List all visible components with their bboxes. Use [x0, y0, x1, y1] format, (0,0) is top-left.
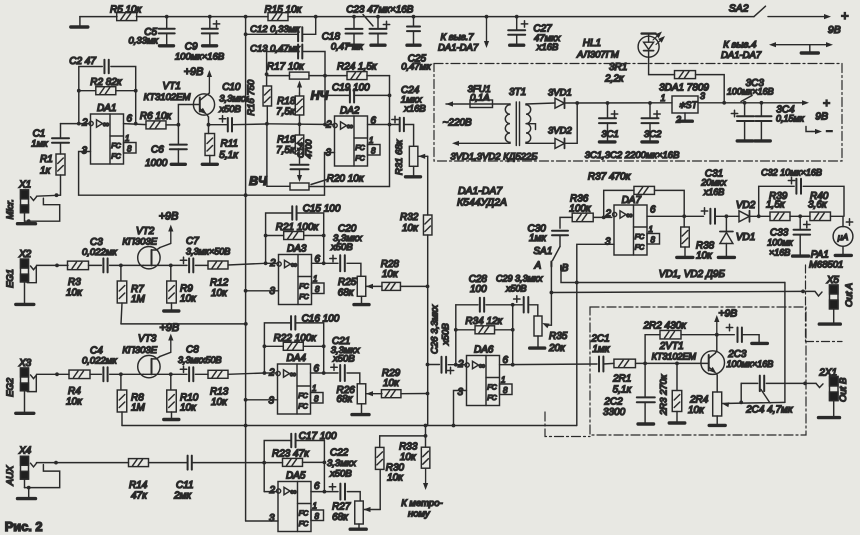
svg-text:FC: FC: [487, 384, 497, 392]
svg-text:3R1: 3R1: [609, 62, 627, 73]
svg-text:C12 0,33мк: C12 0,33мк: [250, 24, 300, 35]
svg-text:FC: FC: [355, 155, 365, 163]
resistor R2: [77, 89, 81, 93]
capacitor 3C3: [744, 103, 746, 116]
svg-text:R14: R14: [129, 480, 148, 491]
capacitor C8: [171, 373, 187, 375]
wire: DA3 pin3 to bias bus: [246, 290, 279, 292]
capacitor C6: [177, 125, 179, 145]
svg-text:8: 8: [314, 395, 319, 404]
svg-text:1: 1: [313, 275, 317, 284]
svg-text:R37 470к: R37 470к: [588, 172, 632, 183]
svg-text:SA2: SA2: [729, 4, 749, 15]
svg-text:μА: μА: [837, 232, 849, 242]
wire: R40 to meter PA1: [831, 216, 844, 226]
svg-text:3,3мкх: 3,3мкх: [327, 458, 357, 469]
callout line C23: [363, 15, 373, 27]
node: DA4 pin6: [322, 371, 326, 375]
wire: VT2 source node: [152, 264, 171, 266]
svg-text:АЛ307ГМ: АЛ307ГМ: [576, 50, 619, 61]
svg-text:10к: 10к: [400, 452, 417, 463]
svg-text:HL1: HL1: [583, 38, 601, 49]
svg-text:R22 100к: R22 100к: [274, 333, 318, 344]
svg-text:2: 2: [605, 209, 612, 220]
svg-text:R5 10к: R5 10к: [110, 5, 143, 16]
svg-text:DA1: DA1: [97, 103, 116, 114]
node: R7 tap: [119, 264, 123, 268]
svg-text:1М: 1М: [131, 403, 146, 414]
svg-text:FC: FC: [111, 142, 121, 150]
wire: HL1 to 3R1: [649, 57, 675, 74]
callout line 2C4: [761, 390, 770, 404]
svg-text:3С2: 3С2: [644, 129, 662, 140]
wire: VT2 drain to +9V: [170, 232, 172, 244]
feedback loop DA4: capacitor C16: [264, 323, 291, 373]
svg-text:10к: 10к: [387, 473, 404, 484]
svg-text:100: 100: [470, 284, 487, 295]
resistor R11: [208, 125, 210, 134]
svg-text:AUX: AUX: [5, 465, 16, 486]
node: R29 join: [426, 392, 430, 396]
svg-text:∞: ∞: [626, 210, 632, 220]
resistor R10: [170, 374, 172, 389]
svg-text:FC: FC: [487, 394, 497, 402]
svg-text:B: B: [562, 263, 569, 274]
svg-text:3: 3: [269, 513, 275, 524]
resistor R5: [117, 13, 137, 21]
svg-text:К выв.7: К выв.7: [441, 32, 475, 43]
wire: DA7 pin3 to B-line and ref rail: [577, 244, 614, 425]
svg-text:8: 8: [503, 386, 508, 395]
wire: C31 to VD2: [715, 215, 739, 217]
svg-text:1: 1: [369, 136, 373, 145]
wire: DA7 pin6 output: [647, 215, 704, 217]
wiper R26 from R29: [366, 391, 373, 396]
wire: 3VD2 up to raw rail: [565, 103, 578, 143]
svg-text:FC: FC: [299, 510, 309, 518]
node: C26 tap: [426, 363, 430, 367]
node: R18/R19: [298, 122, 302, 126]
node: C25 tap: [412, 15, 416, 19]
wire: top rail R5 to R15: [136, 16, 268, 18]
diode 3VD1: [555, 98, 565, 108]
wiper R25 from R28: [366, 284, 373, 289]
svg-text:100к: 100к: [569, 204, 592, 215]
wire: DA1 pin6 to R6: [124, 124, 147, 125]
svg-text:FC: FC: [635, 233, 645, 241]
capacitor C7: [171, 264, 187, 266]
svg-text:∞: ∞: [347, 121, 353, 131]
svg-text:DA7: DA7: [622, 195, 642, 206]
callout line R20: [311, 180, 327, 185]
wiper R31: [418, 154, 425, 159]
resistor R23: [264, 462, 282, 464]
node: R8 tap: [119, 372, 123, 376]
svg-text:1: 1: [312, 384, 316, 393]
node: C29 tap: [511, 303, 515, 307]
svg-text:5,1к: 5,1к: [219, 150, 239, 161]
wiper 2R4 line (to B net): [722, 402, 729, 407]
svg-text:10к: 10к: [211, 288, 228, 299]
wire: secondary bottom to 3VD2: [526, 142, 555, 144]
svg-text:10к: 10к: [696, 251, 713, 262]
capacitor C31: [709, 209, 711, 224]
svg-text:1: 1: [313, 502, 317, 511]
svg-text:100мк×16В: 100мк×16В: [175, 51, 225, 62]
wire: loop left down to pin2: [263, 463, 265, 492]
svg-text:68к: 68к: [338, 288, 355, 299]
op-amp DA4: [278, 364, 311, 414]
contact B path to DA7 pin3 net: [561, 268, 785, 283]
wire: emitter to C10: [209, 124, 228, 126]
svg-text:1мк: 1мк: [592, 344, 610, 355]
svg-text:C22: C22: [330, 448, 349, 459]
wire: DA2 pin6 to C24: [368, 124, 400, 126]
node: DA1 pin2: [77, 122, 81, 126]
svg-text:х50В: х50В: [505, 284, 527, 294]
wire: R8 to DA6 ref rail: [121, 412, 123, 426]
svg-text:5,1к: 5,1к: [613, 385, 633, 396]
svg-text:DA5: DA5: [286, 471, 306, 482]
node: DA5 pin2 loop: [262, 461, 266, 465]
svg-text:3: 3: [269, 396, 275, 407]
svg-text:8: 8: [315, 512, 320, 521]
capacitor C9: [209, 17, 211, 29]
meter PA1: [833, 227, 853, 247]
capacitor 3C1: [607, 103, 609, 118]
svg-text:Out A: Out A: [844, 283, 855, 307]
svg-text:+9В: +9В: [159, 322, 179, 334]
wire: 2VT1 emitter to 2R4: [715, 373, 718, 392]
svg-text:3,6к: 3,6к: [808, 200, 828, 211]
feedback loop DA3: capacitor C15: [266, 213, 293, 263]
resistor 2R2 (collector feedback): [645, 335, 660, 364]
wire: R7 to ref rail: [121, 303, 122, 324]
svg-text:КТ3102ЕМ: КТ3102ЕМ: [652, 352, 697, 362]
capacitor C10: [227, 118, 229, 132]
resistor R30: [379, 470, 381, 510]
svg-text:VD1: VD1: [736, 232, 755, 243]
resistor R36: [572, 213, 593, 222]
diode 3VD2: [555, 138, 565, 148]
svg-text:2: 2: [269, 485, 276, 496]
svg-text:3VD2: 3VD2: [548, 126, 572, 137]
wire: R4 to C4: [90, 373, 101, 375]
svg-text:DA2: DA2: [340, 106, 360, 117]
svg-text:1: 1: [125, 134, 129, 143]
regulator 3DA1 7809: [672, 96, 698, 113]
wire: VT2 ref rail to bus: [121, 323, 246, 325]
resistor R32: [423, 215, 432, 235]
op-amp DA5: [278, 482, 311, 532]
node: C33 tap: [798, 214, 802, 218]
resistor 2R3: [676, 363, 678, 390]
svg-text:10к: 10к: [180, 403, 197, 414]
svg-text:∗ST: ∗ST: [678, 100, 699, 110]
wire: R14 to C11: [149, 462, 188, 464]
svg-text:9В: 9В: [828, 25, 841, 36]
svg-text:R1: R1: [40, 154, 53, 165]
resistor R13: [195, 373, 208, 375]
trimmer R27: [355, 501, 364, 524]
svg-text:К544УД2А: К544УД2А: [457, 198, 507, 209]
node: VD1 tap: [725, 214, 729, 218]
svg-text:C2 47: C2 47: [69, 56, 96, 67]
svg-text:2С4 4,7мк: 2С4 4,7мк: [745, 405, 794, 416]
svg-text:1000: 1000: [145, 158, 168, 169]
diode VD2: [739, 211, 750, 222]
wire: B net vertical: [784, 283, 786, 403]
svg-text:R27: R27: [332, 502, 351, 513]
svg-text:х16В: х16В: [536, 42, 559, 53]
svg-text:X4: X4: [18, 446, 32, 457]
capacitor C26 (in metering column): [428, 364, 440, 366]
node: DA5 pin6: [323, 490, 327, 494]
jack X3 EG2: [21, 368, 29, 377]
wire: C4 to VT3 gate: [110, 373, 144, 375]
wire: X3 tip to R4: [37, 373, 70, 375]
wire: C20 to R25: [347, 263, 361, 276]
wire: R13 to DA4 pin2 (crosses bus): [228, 373, 264, 374]
op-amp DA2: [335, 116, 368, 166]
resistor 2R1: [614, 359, 636, 368]
svg-text:EG2: EG2: [5, 377, 16, 397]
svg-text:R24 1,5к: R24 1,5к: [337, 61, 378, 72]
resistor R1: [60, 175, 62, 195]
resistor R4: [69, 370, 90, 379]
wire: C1 to DA1 pin2: [61, 123, 89, 125]
wire: base node to 2VT1 base: [645, 362, 709, 364]
svg-text:A: A: [534, 261, 542, 272]
svg-text:10к: 10к: [688, 405, 705, 416]
svg-text:8: 8: [371, 147, 376, 156]
svg-text:C13 0,47мк: C13 0,47мк: [250, 44, 300, 55]
wire: tone mid row to DA2 pin2: [267, 123, 332, 126]
capacitor C25: [413, 17, 415, 27]
svg-text:C8: C8: [186, 345, 199, 356]
transistor VT3 (JFET): [138, 355, 160, 377]
svg-text:0,1А: 0,1А: [470, 93, 490, 104]
svg-text:10к: 10к: [383, 378, 400, 389]
svg-text:~220В: ~220В: [443, 118, 472, 129]
svg-text:R11: R11: [221, 139, 239, 150]
svg-text:R20 10к: R20 10к: [327, 174, 365, 185]
wire: top rail left segment: [80, 16, 117, 18]
wire: VD2 to R39: [750, 215, 771, 217]
capacitor C13: [267, 52, 299, 75]
wire: VT1 collector to +9V arrow: [206, 93, 210, 96]
resistor R9: [170, 265, 172, 280]
capacitor 3C4: [760, 103, 762, 116]
capacitor C29: [513, 304, 523, 306]
wire: X2 tip to R3: [37, 264, 69, 266]
node: R28 join: [426, 285, 430, 289]
svg-text:3VD1,3VD2 КД522Б: 3VD1,3VD2 КД522Б: [450, 152, 537, 163]
svg-text:10к: 10к: [211, 397, 228, 408]
svg-text:7,5к: 7,5к: [276, 145, 296, 156]
node: VT1 base/C6: [177, 123, 181, 127]
svg-text:C11: C11: [176, 480, 194, 491]
capacitor 2C2: [644, 363, 646, 397]
trimmer 2R4: [713, 392, 722, 416]
svg-text:∞: ∞: [290, 487, 296, 497]
svg-text:8: 8: [315, 285, 320, 294]
wiper R17 (to NCh): [299, 88, 301, 94]
svg-text:0,022мк: 0,022мк: [82, 247, 117, 258]
svg-text:8: 8: [651, 236, 656, 245]
svg-text:47к: 47к: [131, 491, 148, 502]
svg-text:X3: X3: [18, 358, 32, 369]
svg-text:1: 1: [501, 376, 505, 385]
svg-text:6: 6: [650, 205, 656, 216]
node: C12 branch: [244, 32, 248, 36]
resistor R28: [382, 282, 401, 290]
diode VD1 (vertical): [725, 216, 727, 231]
svg-text:+9В: +9В: [159, 211, 179, 223]
svg-text:C17 100: C17 100: [299, 431, 337, 442]
capacitor C22: [324, 491, 338, 493]
2VT1 stage dash-dot border: [590, 307, 806, 435]
svg-text:R34 12к: R34 12к: [465, 316, 503, 327]
wire: ref rail R8 to DA7 pin3 column: [122, 425, 577, 427]
ground (top-left): [79, 17, 81, 26]
svg-text:FC: FC: [299, 283, 309, 291]
wiper R27 from R30: [364, 507, 371, 512]
resistor R12: [195, 264, 208, 266]
HL1 top bar terminal: [648, 35, 650, 37]
capacitor C11: [187, 456, 189, 470]
svg-text:3: 3: [605, 237, 611, 248]
svg-text:0,47мк: 0,47мк: [401, 62, 431, 73]
capacitor 3C2: [649, 103, 651, 118]
resistor R22: [263, 344, 267, 348]
wiper arrow R20: [299, 169, 301, 175]
svg-text:0,47 мк: 0,47 мк: [331, 42, 364, 53]
node: DA6 pin6: [511, 363, 515, 367]
svg-text:FC: FC: [355, 144, 365, 152]
svg-text:0,33мк: 0,33мк: [129, 36, 159, 47]
node: DA2 pin2: [323, 123, 327, 127]
svg-text:4700: 4700: [304, 139, 314, 158]
op-amp DA7: [614, 205, 647, 255]
svg-text:6: 6: [127, 114, 133, 125]
label: to pin7 DA1-DA7 with arrow: [486, 17, 488, 41]
svg-text:ному: ному: [408, 509, 431, 520]
resistor R29: [381, 390, 401, 398]
jack X1 Micr.: [21, 190, 29, 199]
regulator ground pin: [684, 113, 686, 120]
svg-text:C15 100: C15 100: [303, 204, 341, 215]
svg-text:М68501: М68501: [809, 260, 843, 271]
svg-text:DA6: DA6: [474, 345, 494, 356]
svg-text:10к: 10к: [66, 288, 83, 299]
node: C23 tap: [376, 15, 380, 19]
svg-text:1мк: 1мк: [529, 233, 547, 244]
wire: C10 to tone control node (crosses bus): [232, 123, 267, 126]
node: DA6 pin2: [454, 363, 458, 367]
node: DA7 pin2: [602, 216, 606, 220]
svg-text:х50В: х50В: [441, 323, 452, 346]
resistor R40: [810, 212, 831, 221]
svg-text:R13: R13: [210, 387, 229, 398]
svg-text:КТ3102ЕМ: КТ3102ЕМ: [144, 92, 191, 103]
node: 2R3 tap: [675, 362, 679, 366]
wire: X4 tip to R14: [37, 462, 129, 464]
svg-text:FC: FC: [298, 403, 308, 411]
svg-text:2VT1: 2VT1: [659, 341, 684, 352]
LED HL1: [638, 36, 659, 57]
wire: secondary top to 3VD1: [526, 103, 555, 104]
svg-text:2R1: 2R1: [612, 374, 631, 385]
svg-text:68к: 68к: [332, 512, 349, 523]
wire: top rail R15 to SA2: [288, 16, 754, 18]
capacitor C24: [399, 118, 401, 132]
svg-text:х16В: х16В: [403, 104, 426, 115]
resistor R21: [264, 234, 268, 238]
svg-text:DA1-DA7: DA1-DA7: [458, 186, 503, 197]
node: 2R1/2R2/2C2: [643, 362, 647, 366]
svg-text:C23 47мк×16В: C23 47мк×16В: [346, 4, 414, 15]
svg-text:7,5к: 7,5к: [276, 106, 296, 117]
wire: C11 to DA5 loop (crosses bus): [192, 462, 264, 464]
wire: R30 top to R33 column: [380, 435, 426, 437]
wire: R20 right to DA2 feedback column: [309, 76, 390, 187]
feedback loop DA5: capacitor C17: [264, 441, 291, 463]
svg-text:VT1: VT1: [163, 81, 181, 92]
svg-text:R21 100к: R21 100к: [276, 222, 320, 233]
wire: base node up to VT1 base: [178, 105, 199, 125]
node: R17 left: [265, 72, 269, 76]
capacitor C21: [324, 372, 338, 374]
svg-text:3VD1: 3VD1: [548, 88, 572, 99]
trimmer R31: [409, 146, 418, 166]
resistor R7: [120, 265, 122, 280]
node: DA3 pin2: [264, 261, 268, 265]
wire: DA1 pin3 to bias bus: [79, 152, 246, 196]
resistor R8: [120, 374, 122, 389]
svg-text:х16В: х16В: [703, 187, 725, 197]
node: VT2 ref rail: [244, 322, 248, 326]
wire: R31 wiper down to R32: [427, 156, 429, 215]
capacitor C4: [102, 367, 104, 381]
node: C27 tap: [515, 15, 519, 19]
svg-text:2: 2: [81, 118, 88, 129]
svg-text:DA3: DA3: [287, 244, 307, 255]
node: C9 tap: [208, 15, 212, 19]
wire: C24 to R31: [404, 125, 414, 147]
svg-text:1к: 1к: [40, 166, 52, 177]
transformer center tap: [526, 124, 536, 130]
node: DA6 ref rail: [244, 424, 248, 428]
wire: C22 to R27: [347, 492, 360, 501]
wire: primary bottom with arrow: [508, 142, 510, 144]
svg-text:C16 100: C16 100: [302, 314, 340, 325]
arrow: +9V to 2VT1: [716, 322, 718, 335]
trimmer R26: [357, 384, 366, 404]
svg-text:3,3мк×50В: 3,3мк×50В: [186, 247, 230, 257]
svg-text:1М: 1М: [131, 294, 146, 305]
resistor R38: [683, 216, 685, 227]
svg-text:10к: 10к: [402, 223, 419, 234]
wire: 2R1 to base node: [636, 362, 646, 364]
wire: R36 to DA7 pin2: [593, 216, 612, 218]
svg-text:DA1-DA7: DA1-DA7: [721, 50, 762, 61]
svg-text:10к: 10к: [66, 397, 83, 408]
feedback loop DA6: capacitor C28: [456, 304, 478, 306]
wire: VCh column to R20: [267, 124, 290, 187]
svg-text:R17 10к: R17 10к: [267, 61, 305, 72]
svg-text:КП303Е: КП303Е: [122, 237, 157, 248]
